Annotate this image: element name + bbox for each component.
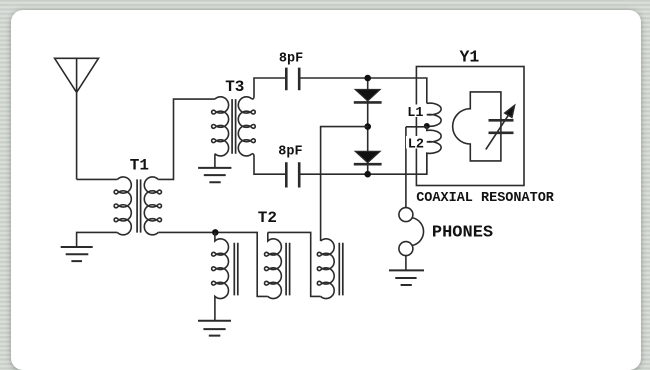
svg-text:T2: T2 — [258, 209, 277, 227]
svg-text:PHONES: PHONES — [432, 224, 493, 243]
wire T1 secondary top up to T3 primary top — [158, 99, 215, 179]
wire T1 secondary bottom to T2 section — [158, 232, 268, 296]
transformer T2 winding A — [265, 232, 282, 298]
antenna — [55, 58, 99, 179]
svg-text:8pF: 8pF — [278, 145, 302, 160]
ground (left, below T1 primary) — [61, 247, 93, 261]
Y1 coaxial resonator box — [416, 67, 524, 186]
transformer T1 primary winding — [114, 177, 131, 235]
wire C2 bottom rail to Y1 box / L2 bottom — [300, 153, 426, 175]
wire T3 secondary bottom to capacitor C2 — [252, 154, 285, 175]
diode column wire — [367, 78, 369, 174]
junction dot (bottom rail / D2 cathode) — [364, 171, 371, 178]
transformer T1 secondary winding — [144, 177, 161, 235]
label L1 — [406, 105, 425, 122]
svg-text:8pF: 8pF — [279, 52, 303, 67]
wire T3 secondary top to capacitor C1 — [252, 78, 285, 99]
wire antenna to T1 primary top — [77, 178, 118, 180]
ground (below W1) — [198, 321, 231, 336]
wire T3 primary bottom to ground stem — [214, 154, 216, 168]
wire T2 winding A top across and down to winding B bottom — [268, 232, 321, 296]
ground (below phones) — [389, 270, 424, 285]
svg-text:T3: T3 — [225, 78, 244, 96]
svg-text:T1: T1 — [130, 156, 149, 174]
junction dot (top rail / D1 anode) — [364, 75, 371, 82]
coil W1 core — [234, 243, 238, 296]
wire phones to ground — [405, 256, 407, 271]
transformer T3 core — [232, 99, 236, 154]
wire mid-diode node left and down to T2 winding 3 — [321, 127, 368, 241]
capacitor C2 8pF plates — [286, 162, 299, 187]
svg-text:COAXIAL RESONATOR: COAXIAL RESONATOR — [416, 191, 555, 206]
phones headband arc — [412, 218, 424, 246]
variable capacitor arrow — [486, 115, 509, 149]
resonator cavity symbol — [453, 92, 501, 161]
diode D1 — [355, 90, 380, 101]
coil L2 — [427, 126, 441, 174]
transformer T3 primary winding — [212, 97, 229, 156]
transformer T3 secondary winding — [238, 97, 255, 156]
junction dot (L1/L2 tap) — [424, 123, 430, 129]
phones earpiece top — [399, 208, 413, 222]
capacitor C1 8pF plates — [286, 68, 299, 91]
wire L1/L2 tap to phones drop — [406, 126, 427, 128]
junction dot (between diodes) — [364, 123, 371, 130]
svg-text:L1: L1 — [407, 106, 423, 121]
transformer T2 winding B — [317, 239, 334, 299]
svg-text:Y1: Y1 — [460, 47, 480, 66]
junction dot node A (T1 sec bottom / autotransformer tap) — [212, 229, 219, 236]
variable capacitor plates — [489, 120, 514, 133]
coil winding W1 (autotransformer) below tap — [212, 232, 229, 320]
ground (below T3) — [198, 168, 231, 182]
transformer T1 core — [137, 179, 141, 232]
wire C1 to diode column (top rail) and into Y1 box to L1 — [300, 78, 426, 103]
T2 winding B core — [339, 243, 343, 296]
svg-text:L2: L2 — [408, 138, 424, 153]
wire T1 primary bottom to left ground — [77, 232, 118, 247]
coil L1 — [427, 103, 441, 126]
label L2 — [406, 136, 425, 153]
T2 winding A core — [286, 243, 290, 296]
diode D2 — [355, 151, 380, 162]
phones earpiece bottom — [399, 242, 413, 256]
